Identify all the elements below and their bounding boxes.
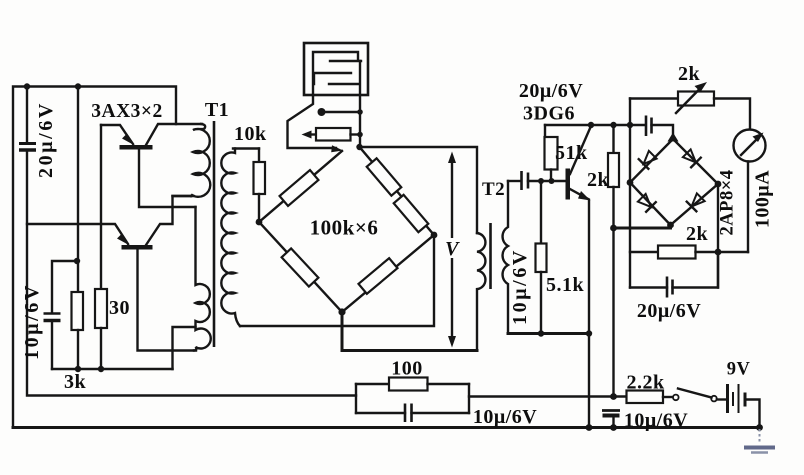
transistor Q2 base bar (122, 245, 153, 250)
wire 3k bottom lead (77, 330, 79, 369)
resistor R 30 body (95, 289, 107, 328)
transistor Q1 emitter wire (101, 125, 133, 144)
node top rail junction at 3k rail (75, 83, 81, 89)
node 10uF cap top junction (610, 393, 617, 400)
wire RC right side (468, 384, 470, 413)
node bridge top vertex triangle (668, 133, 679, 142)
wire cap left lead (630, 286, 667, 288)
resistor R 5.1k body (536, 244, 547, 273)
wire 51k bottom lead (550, 170, 552, 182)
wire top-left rail (13, 87, 176, 428)
node cap ground junction (610, 424, 617, 431)
resistor bridge arm LB body (282, 248, 319, 286)
wire RC to 2.2k (469, 395, 627, 397)
wire bridge top to T2 primary (360, 147, 478, 233)
node bridge top-right vertex (356, 144, 362, 150)
node collector junction (588, 122, 594, 128)
diode D2 (681, 148, 702, 169)
arrowhead into bridge top-left vertex (331, 145, 343, 152)
svg-text:10μ/6V: 10μ/6V (509, 248, 531, 325)
resistor bridge arm RT2 body (394, 195, 429, 232)
diode D3 (636, 192, 657, 213)
diode D4 (686, 192, 707, 213)
capacitor coupling 10u/6V plates (522, 171, 529, 190)
transistor Q3 emitter wire (570, 189, 589, 428)
resistor bridge arm BR body (359, 258, 398, 294)
diode bridge arm bottom-right (671, 184, 719, 225)
node 5.1k bottom junction (538, 330, 544, 336)
svg-text:3k: 3k (64, 371, 87, 393)
sensor element serpentine (313, 52, 361, 95)
wire 2k top lead (612, 125, 614, 153)
wire T2 bottom emitter bus (508, 332, 589, 335)
ground symbol (744, 429, 775, 453)
wire emitter bias bus y369 (52, 368, 173, 370)
diode bridge arm top-left (630, 139, 673, 183)
resistor R 2k horizontal body (630, 246, 748, 259)
svg-text:100: 100 (391, 358, 423, 380)
node 10uF branch junction (74, 258, 80, 264)
trimmer arrow lead (309, 133, 316, 135)
wire 3k rail (77, 87, 79, 293)
wire T1 primary section lead (173, 195, 192, 197)
wire 10uF bottom lead (51, 322, 53, 369)
wire bridge arm right-top (360, 147, 435, 235)
wire bridge arm bottom-right (342, 235, 434, 312)
svg-text:100μA: 100μA (752, 170, 774, 228)
svg-text:2k: 2k (587, 169, 610, 191)
transistor Q3 3DG6 base bar (566, 169, 571, 200)
transistor Q2 base lead (138, 250, 197, 351)
capacitor C2 10u/6V plates (44, 314, 61, 321)
resistor R 100 body (389, 378, 428, 391)
svg-text:20μ/6V: 20μ/6V (519, 80, 583, 102)
potentiometer 2k body (678, 92, 714, 106)
diode bridge arm bottom-left (630, 183, 671, 226)
node 3k on bus (75, 366, 81, 372)
svg-text:2k: 2k (678, 63, 701, 85)
node 2k horizontal right junction (715, 249, 722, 256)
node diode bridge right vertex (715, 181, 722, 188)
node 2k top junction (610, 122, 616, 128)
wire R100 right lead (428, 383, 470, 385)
node 2k line junction (610, 225, 617, 232)
wire battery to ground bus (747, 400, 760, 428)
transistor Q2 collector wire (146, 196, 193, 245)
capacitor RC block plates (356, 404, 469, 423)
node pot rail junction (627, 122, 633, 128)
transformer T1 feedback winding (194, 207, 211, 351)
node top rail junction at 20uF rail (24, 83, 30, 89)
svg-text:10μ/6V: 10μ/6V (473, 406, 537, 428)
wire cap right lead (673, 252, 719, 288)
transformer T2 primary winding (477, 233, 485, 351)
wire T1 secondary bottom to bridge right (240, 235, 434, 326)
transistor Q2 emitter wire (27, 224, 128, 244)
node trimmer right junction (357, 132, 363, 138)
sensor right lead (359, 61, 361, 147)
wire 10k top lead (258, 149, 260, 163)
svg-text:20μ/6V: 20μ/6V (637, 300, 701, 322)
resistor R 3k body (72, 292, 84, 330)
wire cap to ground bus (612, 418, 614, 428)
wire 51k top lead (544, 125, 546, 137)
transistor Q1 base bar (120, 145, 153, 150)
transformer T1 secondary winding (221, 149, 240, 327)
node bridge left vertex (256, 219, 263, 226)
wire bottom ground bus (13, 426, 760, 429)
svg-text:2AP8×4: 2AP8×4 (718, 170, 738, 236)
wire cap to bridge top (652, 125, 674, 139)
wire right vertex down (717, 184, 719, 288)
potentiometer 2k arrow (676, 82, 707, 113)
transformer T2 core (489, 223, 492, 289)
svg-text:30: 30 (109, 297, 130, 319)
svg-text:3DG6: 3DG6 (523, 103, 575, 125)
wire T2 secondary top lead (508, 180, 520, 182)
node 5.1k top junction (538, 178, 544, 184)
annotation V arrow line (448, 152, 456, 348)
resistor R 2.2k body (627, 391, 664, 404)
transistor Q3 collector wire (570, 126, 591, 174)
transformer T1 primary top winding (191, 124, 210, 197)
resistor bridge arm LT body (280, 170, 319, 206)
wire bridge bottom to 2k line (613, 227, 671, 230)
svg-text:V: V (445, 238, 460, 260)
svg-text:10μ/6V: 10μ/6V (624, 410, 688, 432)
resistor R 10k body (254, 162, 266, 194)
wire bridge arm left-bottom (259, 222, 342, 312)
svg-text:9V: 9V (727, 360, 751, 380)
node stub junction (357, 109, 363, 115)
transistor Q3 emitter arrow (578, 191, 591, 201)
wire 2k bottom lead down (612, 187, 614, 397)
svg-text:20μ/6V: 20μ/6V (35, 101, 57, 178)
svg-text:2k: 2k (686, 223, 709, 245)
svg-text:10μ/6V: 10μ/6V (21, 283, 43, 360)
resistor R 2k vertical body (608, 153, 619, 187)
wire lower bus RC block left (356, 384, 389, 413)
node bridge right vertex (431, 232, 438, 239)
sensor left lead (288, 95, 337, 148)
wire meter bottom lead (747, 162, 749, 253)
sensor probe outer case (304, 43, 368, 95)
svg-text:T1: T1 (205, 99, 229, 121)
node emitter line junction (586, 330, 592, 336)
node emitter ground junction (586, 424, 593, 431)
capacitor series to bridge plates (646, 116, 652, 137)
trimmer arrowhead left (302, 131, 312, 139)
transistor Q1 base lead (139, 150, 196, 208)
transistor Q1 collector wire (146, 124, 202, 145)
wire bridge bottom vertex lead (342, 312, 477, 351)
wire emitter rail (100, 125, 102, 289)
wire pot left rail (629, 99, 631, 288)
trimmer right lead (351, 133, 361, 135)
diode bridge arm top-right (673, 139, 718, 184)
wire 30 bottom lead (100, 328, 102, 369)
svg-text:3AX3×2: 3AX3×2 (91, 101, 163, 122)
svg-text:10k: 10k (234, 123, 267, 145)
diode D1 (638, 149, 659, 170)
meter needle (741, 133, 764, 156)
wire 2.2k to switch (663, 396, 673, 398)
wire 5.1k bottom lead (540, 272, 542, 334)
wire 5.1k top lead (540, 181, 542, 244)
wire 3DG6 base wire (528, 180, 566, 182)
resistor R 51k body (545, 137, 558, 170)
capacitor C1 20u/6V plates (19, 144, 36, 151)
node 51k bottom junction (549, 178, 555, 184)
node bridge bottom vertex (338, 308, 345, 315)
label V (444, 238, 461, 260)
potentiometer 2k left lead (630, 97, 678, 99)
wire 10k bottom lead (258, 194, 260, 222)
svg-text:T2: T2 (482, 179, 505, 200)
meter M 100uA circle (734, 130, 766, 162)
transformer T1 core (213, 121, 216, 347)
svg-text:100k×6: 100k×6 (310, 216, 379, 240)
battery B 9V plates (728, 384, 746, 413)
potentiometer right lead to meter (714, 99, 750, 130)
node 30 on bus (98, 366, 104, 372)
node diode bridge bottom vertex (667, 222, 674, 229)
wire bus riser to winding tap (173, 327, 196, 369)
transistor Q2 emitter arrow (117, 234, 129, 246)
wire switch to battery (717, 398, 726, 400)
wire supply rail y125 (545, 124, 645, 126)
wire 10uF branch (52, 261, 77, 312)
svg-text:5.1k: 5.1k (546, 274, 585, 296)
node diode bridge left vertex (627, 179, 634, 186)
resistor trimmer body (316, 128, 351, 141)
wire 20uF rail down to lower bus (27, 152, 356, 396)
capacitor 20u/6V bridge plates (667, 277, 673, 298)
resistor bridge arm RT1 body (367, 158, 402, 195)
transformer T2 secondary winding (503, 181, 508, 334)
capacitor C1 20u/6V left rail top lead (26, 87, 28, 143)
wire bridge arm left-top (259, 151, 342, 222)
capacitor 10u/6V right plates (602, 411, 620, 416)
node battery ground junction (756, 424, 763, 431)
switch S contacts (673, 389, 717, 402)
wire T1 secondary top to bridge (233, 147, 259, 149)
transistor Q1 emitter arrow (122, 134, 134, 146)
terminal stub with dot (318, 108, 361, 116)
